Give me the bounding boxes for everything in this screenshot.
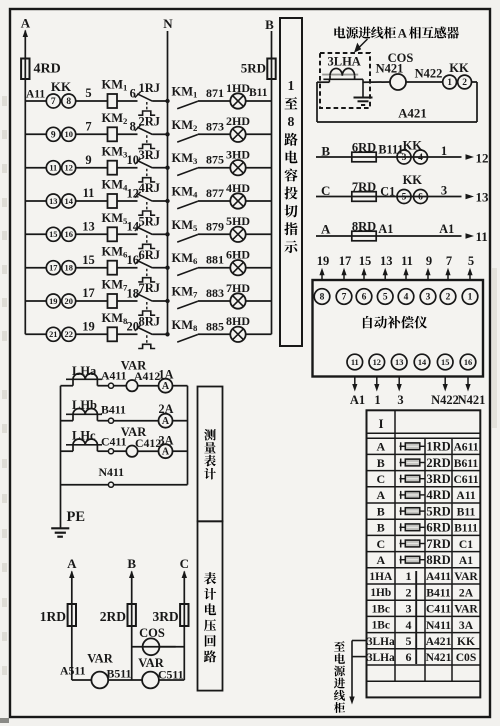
svg-text:5: 5	[468, 254, 474, 268]
svg-text:VAR: VAR	[454, 570, 478, 583]
svg-text:B: B	[377, 456, 385, 470]
svg-text:A: A	[162, 447, 170, 458]
svg-text:C1: C1	[380, 185, 395, 199]
svg-text:11: 11	[476, 229, 488, 244]
svg-text:6RJ: 6RJ	[139, 248, 161, 262]
terminal table grid	[367, 432, 481, 434]
svg-text:KK: KK	[403, 173, 423, 187]
svg-text:C611: C611	[453, 473, 478, 486]
thermal relay contact 4RJ	[137, 194, 152, 201]
svg-text:7: 7	[446, 254, 452, 268]
wire phase B vertical	[129, 571, 134, 579]
svg-text:N421: N421	[458, 393, 486, 407]
svg-text:B111: B111	[378, 143, 403, 157]
svg-text:2: 2	[446, 293, 451, 303]
wire 9 (row 3)	[76, 167, 108, 169]
power factor meter COS (voltage circuit)	[143, 638, 160, 655]
svg-text:8HD: 8HD	[226, 314, 250, 328]
svg-text:N: N	[163, 16, 173, 31]
wire N411 row	[61, 484, 109, 486]
svg-text:17: 17	[82, 286, 95, 300]
ground PE	[51, 527, 69, 529]
svg-text:19: 19	[317, 254, 330, 268]
var transducer VAR C511	[142, 672, 159, 689]
KK contact terminals 21 22 (row 8)	[46, 327, 60, 341]
wire between var meters	[108, 679, 142, 681]
wire row 5 from A bus to KK contacts	[25, 233, 46, 235]
wire 885 (row 8)	[198, 333, 231, 335]
automatic compensation instrument U1 (box)	[313, 280, 484, 377]
svg-text:11: 11	[49, 164, 57, 173]
wire A421 loop	[317, 81, 329, 83]
svg-text:10: 10	[127, 153, 140, 167]
svg-text:N422: N422	[415, 67, 443, 81]
svg-text:3: 3	[402, 153, 407, 163]
wire A411-A412	[114, 385, 127, 387]
svg-text:2RD: 2RD	[100, 609, 126, 624]
svg-text:A1: A1	[350, 393, 365, 407]
contactor coil KM5	[108, 227, 118, 241]
wire lamp to B bus (row 3)	[246, 167, 272, 169]
pin wires out of compensator (bottom)	[354, 377, 356, 388]
svg-text:3RD: 3RD	[152, 609, 178, 624]
wire bottom var row	[72, 679, 92, 681]
svg-text:11: 11	[83, 186, 95, 200]
wire 8 (row 2)	[117, 133, 138, 135]
wire row 6 from A bus to KK contacts	[25, 267, 46, 269]
svg-text:15: 15	[359, 254, 372, 268]
terminal (N411)	[108, 482, 113, 487]
label box: 1 to 8 capacitor switching indication	[280, 18, 302, 346]
svg-text:A1: A1	[459, 554, 473, 567]
contactor coil KM7	[108, 294, 118, 308]
svg-text:9: 9	[51, 131, 56, 141]
fuse 3RD	[180, 604, 188, 626]
contactor coil KM8	[108, 327, 118, 341]
svg-text:1: 1	[441, 144, 447, 158]
svg-text:16: 16	[464, 358, 472, 367]
wire row 2 from A bus to KK contacts	[25, 133, 46, 135]
KK contact terminals 11 12 (row 3)	[46, 161, 60, 175]
svg-text:9: 9	[85, 153, 91, 167]
var transducer VAR (phase a)	[126, 380, 137, 391]
wire phase A vertical	[69, 571, 74, 579]
wire 19 (row 8)	[76, 333, 108, 335]
svg-text:N421: N421	[376, 62, 404, 76]
svg-text:B611: B611	[454, 457, 479, 470]
svg-text:3: 3	[441, 184, 447, 198]
svg-text:COS: COS	[139, 626, 165, 640]
svg-text:7: 7	[85, 120, 91, 134]
svg-text:1A: 1A	[159, 367, 174, 381]
svg-text:A: A	[162, 381, 170, 392]
wire 881 (row 6)	[198, 267, 231, 269]
svg-text:13: 13	[395, 358, 403, 367]
wire 15 (row 6)	[76, 267, 108, 269]
label box: meter voltage circuit	[198, 521, 223, 690]
junction dot on N bus (row 8)	[165, 332, 169, 336]
current transformer 3LHA (dashed enclosure)	[320, 53, 370, 108]
junction dot on N bus (row 2)	[165, 132, 169, 136]
wire 871 (row 1)	[198, 100, 231, 102]
ammeter 3A	[159, 444, 173, 458]
ammeter 1A	[159, 379, 173, 393]
fuse 4RD	[21, 59, 29, 80]
var transducer VAR (phase c)	[126, 446, 137, 457]
power factor meter COS (incoming)	[390, 74, 406, 90]
contactor contact KM6 (NO)	[177, 268, 198, 276]
svg-text:PE: PE	[67, 509, 86, 525]
svg-text:A11: A11	[26, 89, 45, 101]
svg-text:2A: 2A	[159, 402, 174, 416]
wire 12 (row 4)	[117, 200, 138, 202]
svg-text:5RD: 5RD	[241, 61, 266, 76]
wire row 1 from A bus to KK contacts	[25, 100, 46, 102]
compensator name text	[363, 316, 372, 329]
svg-text:8: 8	[288, 114, 295, 129]
svg-text:1: 1	[374, 393, 380, 407]
junction dot on N bus (row 1)	[165, 99, 169, 103]
KK contact terminals 19 20 (row 7)	[46, 294, 60, 308]
terminal (B411)	[108, 418, 113, 423]
svg-text:4RJ: 4RJ	[139, 181, 161, 195]
contactor coil KM4	[108, 194, 118, 208]
wire row 3 from A bus to KK contacts	[25, 167, 46, 169]
wire 875 (row 3)	[198, 167, 231, 169]
svg-text:2: 2	[406, 585, 412, 599]
fuse 2RD	[128, 604, 136, 626]
ground (inside CT box)	[362, 82, 364, 97]
svg-text:6: 6	[130, 86, 136, 100]
svg-text:15: 15	[441, 358, 449, 367]
svg-text:5RJ: 5RJ	[139, 215, 161, 229]
svg-text:879: 879	[206, 219, 224, 233]
svg-text:5: 5	[383, 293, 388, 303]
wire 873 (row 2)	[198, 133, 231, 135]
svg-text:2RD: 2RD	[426, 456, 450, 470]
label box: measuring instruments	[198, 387, 223, 522]
wire row A	[316, 235, 462, 237]
svg-text:883: 883	[206, 286, 224, 300]
svg-text:10: 10	[65, 130, 73, 139]
indicator lamp 5HD	[230, 227, 245, 242]
wire row C	[316, 196, 462, 198]
svg-text:B511: B511	[107, 667, 132, 681]
wire row 7 from A bus to KK contacts	[25, 300, 46, 302]
svg-text:11: 11	[351, 358, 359, 367]
wire 5 (row 1)	[76, 100, 108, 102]
terminal table frame	[367, 410, 481, 697]
svg-text:A: A	[398, 27, 408, 41]
fuse 5RD	[267, 59, 275, 80]
wire row B	[316, 156, 462, 158]
svg-text:A1: A1	[378, 222, 393, 236]
wire 883 (row 7)	[198, 300, 231, 302]
junction dot on N bus (row 5)	[165, 232, 169, 236]
wire row 8 from A bus to KK contacts	[25, 333, 46, 335]
svg-text:8: 8	[130, 120, 136, 134]
wire 14 (row 5)	[117, 233, 138, 235]
svg-text:LHa: LHa	[72, 364, 97, 378]
wire left measurement bus	[60, 386, 62, 529]
wire 877 (row 4)	[198, 200, 231, 202]
compensator bottom terminals 11..16	[347, 354, 363, 370]
wire phase C vertical	[182, 571, 187, 579]
svg-text:22: 22	[65, 330, 73, 339]
svg-text:7RD: 7RD	[426, 537, 450, 551]
thermal relay contact 6RJ	[137, 261, 152, 268]
svg-text:A411: A411	[426, 570, 451, 583]
KK contact terminals 7 8 (row 1)	[46, 94, 60, 108]
svg-text:9: 9	[426, 254, 432, 268]
indicator lamp 8HD	[230, 327, 245, 342]
fuse 6RD	[352, 152, 376, 162]
contactor contact KM7 (NO)	[177, 301, 198, 309]
svg-text:13: 13	[82, 220, 95, 234]
svg-text:1: 1	[406, 569, 412, 583]
svg-text:B: B	[377, 504, 385, 518]
wire lamp to B bus (row 6)	[246, 267, 272, 269]
svg-text:1Hb: 1Hb	[370, 587, 391, 599]
svg-text:3: 3	[397, 393, 403, 407]
svg-text:12: 12	[373, 358, 381, 367]
svg-text:B11: B11	[457, 505, 476, 518]
svg-text:A: A	[376, 488, 385, 502]
svg-text:2HD: 2HD	[226, 114, 250, 128]
svg-text:12: 12	[127, 186, 140, 200]
KK contact terminals 15 16 (row 5)	[46, 227, 60, 241]
contactor contact KM2 (NO)	[177, 135, 198, 143]
wire 20 (row 8)	[117, 333, 138, 335]
terminal (C411)	[108, 449, 113, 454]
fuse 8RD	[352, 231, 376, 241]
svg-text:A1: A1	[439, 222, 454, 236]
svg-text:A: A	[376, 553, 385, 567]
svg-text:6RD: 6RD	[426, 521, 450, 535]
svg-text:KK: KK	[457, 635, 475, 648]
svg-text:3RD: 3RD	[426, 472, 450, 486]
svg-text:4: 4	[406, 618, 412, 632]
svg-text:16: 16	[127, 253, 140, 267]
svg-text:4RD: 4RD	[34, 62, 61, 77]
wire 17 (row 7)	[76, 300, 108, 302]
svg-text:8RD: 8RD	[426, 553, 450, 567]
svg-text:A511: A511	[60, 663, 86, 677]
svg-text:N411: N411	[426, 619, 451, 632]
wire B lamp-bus vertical	[271, 31, 273, 334]
wire 6 (row 1)	[117, 100, 138, 102]
wire 18 (row 7)	[117, 300, 138, 302]
thermal relay contact 5RJ	[137, 227, 152, 234]
wire COS branch	[132, 646, 176, 648]
svg-text:3LHA: 3LHA	[328, 55, 361, 69]
svg-text:5: 5	[406, 634, 412, 648]
svg-text:2RJ: 2RJ	[139, 115, 161, 129]
svg-text:C: C	[180, 556, 189, 571]
wire C411-C412	[114, 450, 127, 452]
svg-text:1Bc: 1Bc	[372, 603, 390, 615]
svg-text:885: 885	[206, 319, 224, 333]
svg-text:7: 7	[342, 293, 347, 303]
svg-text:15: 15	[49, 230, 57, 239]
svg-text:19: 19	[82, 320, 95, 334]
fuse 7RD	[352, 192, 376, 202]
svg-text:B: B	[265, 17, 274, 32]
label: to power incoming cabinet	[334, 641, 345, 651]
svg-text:3A: 3A	[159, 433, 174, 447]
svg-text:5HD: 5HD	[226, 214, 250, 228]
svg-text:20: 20	[65, 297, 73, 306]
title: power incoming cabinet phase-A CT	[334, 27, 345, 39]
contactor contact KM4 (NO)	[177, 201, 198, 209]
svg-text:A: A	[321, 222, 331, 237]
svg-text:8RD: 8RD	[352, 219, 376, 233]
svg-text:3RJ: 3RJ	[139, 148, 161, 162]
svg-text:18: 18	[127, 286, 140, 300]
svg-text:1HA: 1HA	[369, 571, 393, 583]
wire to ammeter 3A	[138, 450, 159, 452]
svg-text:5: 5	[85, 86, 91, 100]
svg-text:4: 4	[404, 293, 409, 303]
table terminal strip bus line	[415, 571, 417, 664]
fuse 1RD	[68, 604, 76, 626]
junction dot on N bus (row 3)	[165, 166, 169, 170]
svg-text:VAR: VAR	[87, 652, 113, 666]
svg-text:1: 1	[468, 293, 473, 303]
wire 11 (row 4)	[76, 200, 108, 202]
svg-text:871: 871	[206, 86, 224, 100]
svg-text:A421: A421	[426, 635, 452, 648]
wire 1A to right bus	[173, 385, 188, 387]
svg-text:KK: KK	[51, 79, 72, 94]
svg-text:14: 14	[65, 197, 74, 206]
svg-text:3LHa: 3LHa	[367, 652, 395, 664]
svg-text:LHc: LHc	[72, 429, 96, 443]
svg-text:C411: C411	[426, 603, 451, 616]
svg-text:B411: B411	[101, 403, 126, 417]
wire to ammeter 1A	[138, 385, 159, 387]
pin wires into compensator (top)	[321, 272, 323, 281]
wire to power incoming cabinet	[352, 640, 367, 642]
svg-text:12: 12	[65, 164, 73, 173]
svg-text:1Bc: 1Bc	[372, 620, 390, 632]
contactor coil KM6	[108, 261, 118, 275]
svg-text:KK: KK	[449, 61, 469, 75]
svg-text:A611: A611	[453, 441, 478, 454]
thermal relay contact 1RJ	[137, 94, 152, 101]
svg-text:5: 5	[402, 193, 407, 203]
svg-text:873: 873	[206, 119, 224, 133]
contactor coil KM1	[108, 94, 118, 108]
leader arrow to dashed box	[357, 39, 368, 50]
thermal relay contact 8RJ	[137, 327, 152, 334]
svg-text:2: 2	[462, 78, 467, 88]
svg-text:I: I	[378, 416, 383, 431]
indicator lamp 2HD	[230, 127, 245, 142]
svg-text:C412: C412	[135, 436, 161, 450]
svg-text:1RD: 1RD	[40, 609, 66, 624]
svg-text:877: 877	[206, 186, 224, 200]
wire N bus vertical	[167, 31, 169, 334]
svg-text:881: 881	[206, 253, 224, 267]
svg-text:20: 20	[127, 320, 140, 334]
indicator lamp 4HD	[230, 193, 245, 208]
wire 879 (row 5)	[198, 233, 231, 235]
svg-text:13: 13	[380, 254, 393, 268]
wire A bus vertical	[24, 31, 26, 335]
wire lamp to B bus (row 8)	[246, 333, 272, 335]
KK contact terminals 9 10 (row 2)	[46, 127, 60, 141]
svg-text:N422: N422	[431, 393, 459, 407]
svg-text:7: 7	[51, 97, 56, 107]
compensator top terminals 8..1	[314, 289, 330, 305]
contactor contact KM3 (NO)	[177, 168, 198, 176]
svg-text:8: 8	[66, 97, 71, 107]
wire lamp to B bus (row 1)	[246, 100, 272, 102]
KK contact terminals 13 14 (row 4)	[46, 194, 60, 208]
svg-text:13: 13	[476, 190, 490, 205]
CT 3LHA primary bar	[322, 74, 358, 76]
current transformer LHc	[66, 444, 102, 446]
var transducer VAR A511-B511	[91, 672, 108, 689]
svg-text:12: 12	[476, 151, 489, 166]
thermal relay contact 3RJ	[137, 161, 152, 168]
svg-text:C1: C1	[459, 538, 473, 551]
svg-text:3HD: 3HD	[226, 148, 250, 162]
svg-text:6: 6	[406, 650, 412, 664]
contactor contact KM8 (NO)	[177, 335, 198, 343]
wire row 4 from A bus to KK contacts	[25, 200, 46, 202]
svg-text:N421: N421	[426, 651, 452, 664]
wire 7 (row 2)	[76, 133, 108, 135]
wire to ammeter 2A	[114, 420, 159, 422]
svg-text:17: 17	[49, 264, 57, 273]
wire 3A to right bus	[173, 450, 188, 452]
svg-text:A11: A11	[456, 489, 476, 502]
contactor coil KM3	[108, 161, 118, 175]
CT 3LHA winding	[323, 78, 363, 80]
svg-text:4RD: 4RD	[426, 488, 450, 502]
svg-text:3A: 3A	[459, 619, 474, 632]
svg-text:6HD: 6HD	[226, 248, 250, 262]
svg-text:B111: B111	[454, 522, 478, 535]
svg-text:C: C	[376, 472, 385, 486]
current transformer LHa	[66, 378, 102, 380]
contactor contact KM5 (NO)	[177, 235, 198, 243]
svg-text:21: 21	[49, 330, 57, 339]
wire 13 (row 5)	[76, 233, 108, 235]
svg-text:3LHa: 3LHa	[367, 636, 395, 648]
junction dot on N bus (row 7)	[165, 299, 169, 303]
svg-text:8RJ: 8RJ	[139, 315, 161, 329]
svg-text:1: 1	[288, 78, 295, 93]
svg-text:1: 1	[447, 78, 452, 88]
svg-text:A412: A412	[134, 369, 160, 383]
svg-text:A: A	[376, 440, 385, 454]
svg-text:14: 14	[418, 358, 427, 367]
svg-text:A: A	[21, 16, 31, 31]
wire lamp to B bus (row 2)	[246, 133, 272, 135]
svg-text:B11: B11	[249, 87, 268, 99]
svg-text:15: 15	[82, 253, 95, 267]
wire 10 (row 3)	[117, 167, 138, 169]
svg-text:2A: 2A	[459, 586, 474, 599]
svg-text:LHb: LHb	[72, 398, 97, 412]
svg-text:5RD: 5RD	[426, 504, 450, 518]
svg-text:6: 6	[362, 293, 367, 303]
current transformer LHb	[66, 413, 102, 415]
svg-text:4HD: 4HD	[226, 181, 250, 195]
